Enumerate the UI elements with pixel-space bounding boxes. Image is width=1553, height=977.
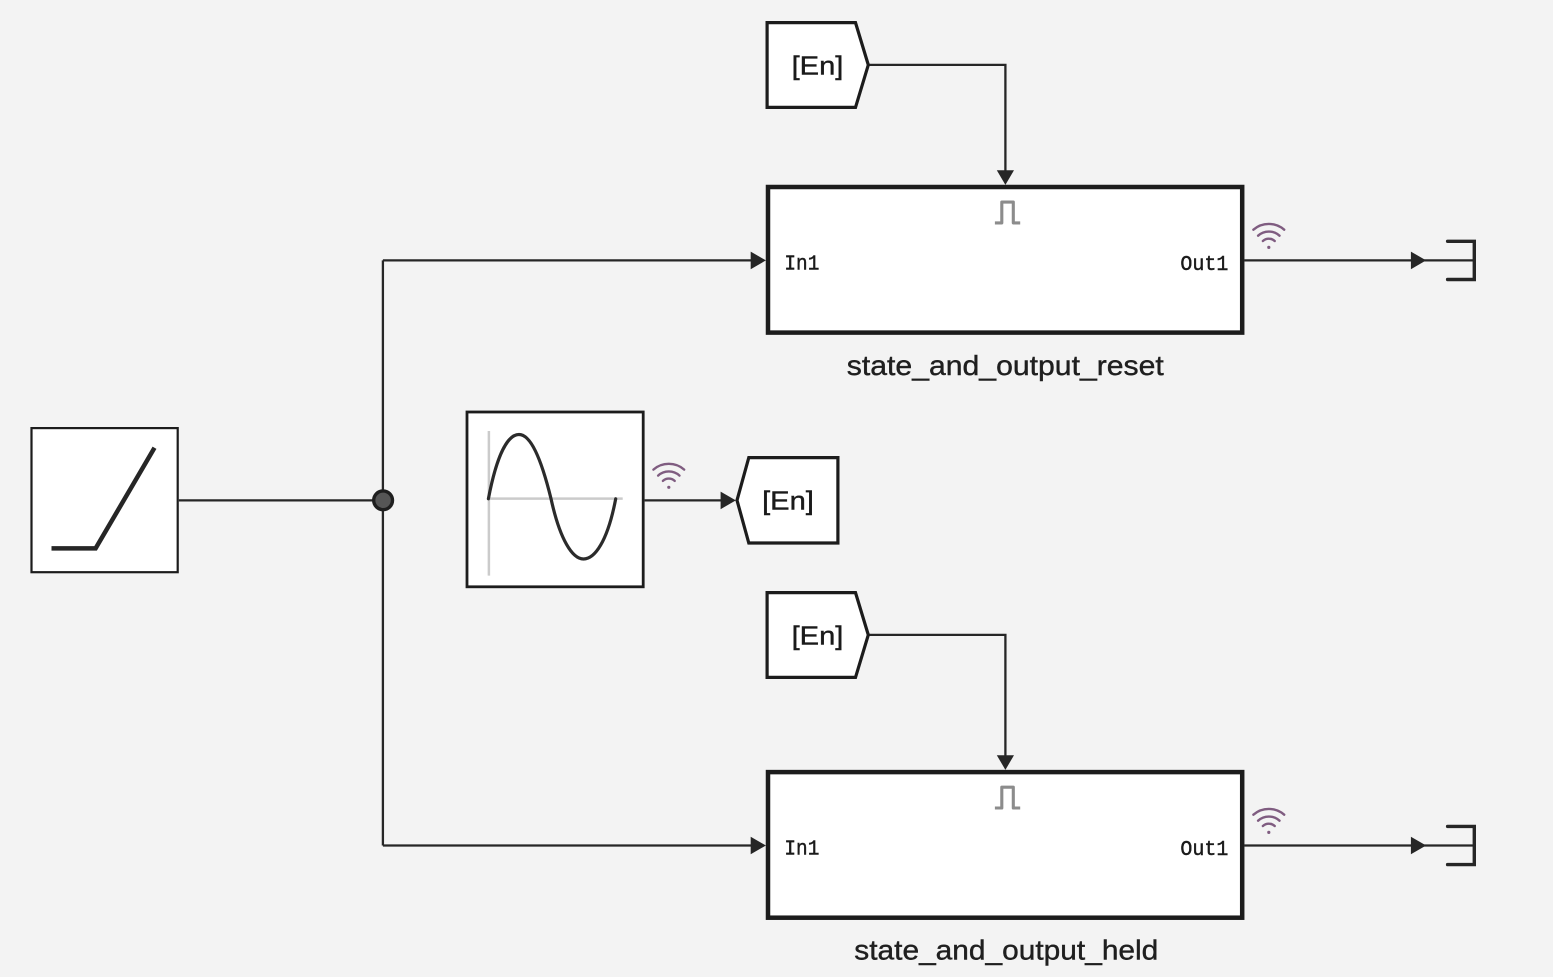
svg-text:[En]: [En] [792, 51, 844, 81]
svg-text:In1: In1 [784, 839, 819, 862]
svg-text:state_and_output_reset: state_and_output_reset [847, 350, 1164, 381]
svg-text:[En]: [En] [762, 486, 814, 516]
svg-text:[En]: [En] [792, 621, 844, 651]
svg-text:state_and_output_held: state_and_output_held [854, 934, 1158, 965]
svg-text:Out1: Out1 [1180, 254, 1228, 277]
svg-text:Out1: Out1 [1180, 839, 1228, 862]
svg-text:In1: In1 [784, 254, 819, 277]
